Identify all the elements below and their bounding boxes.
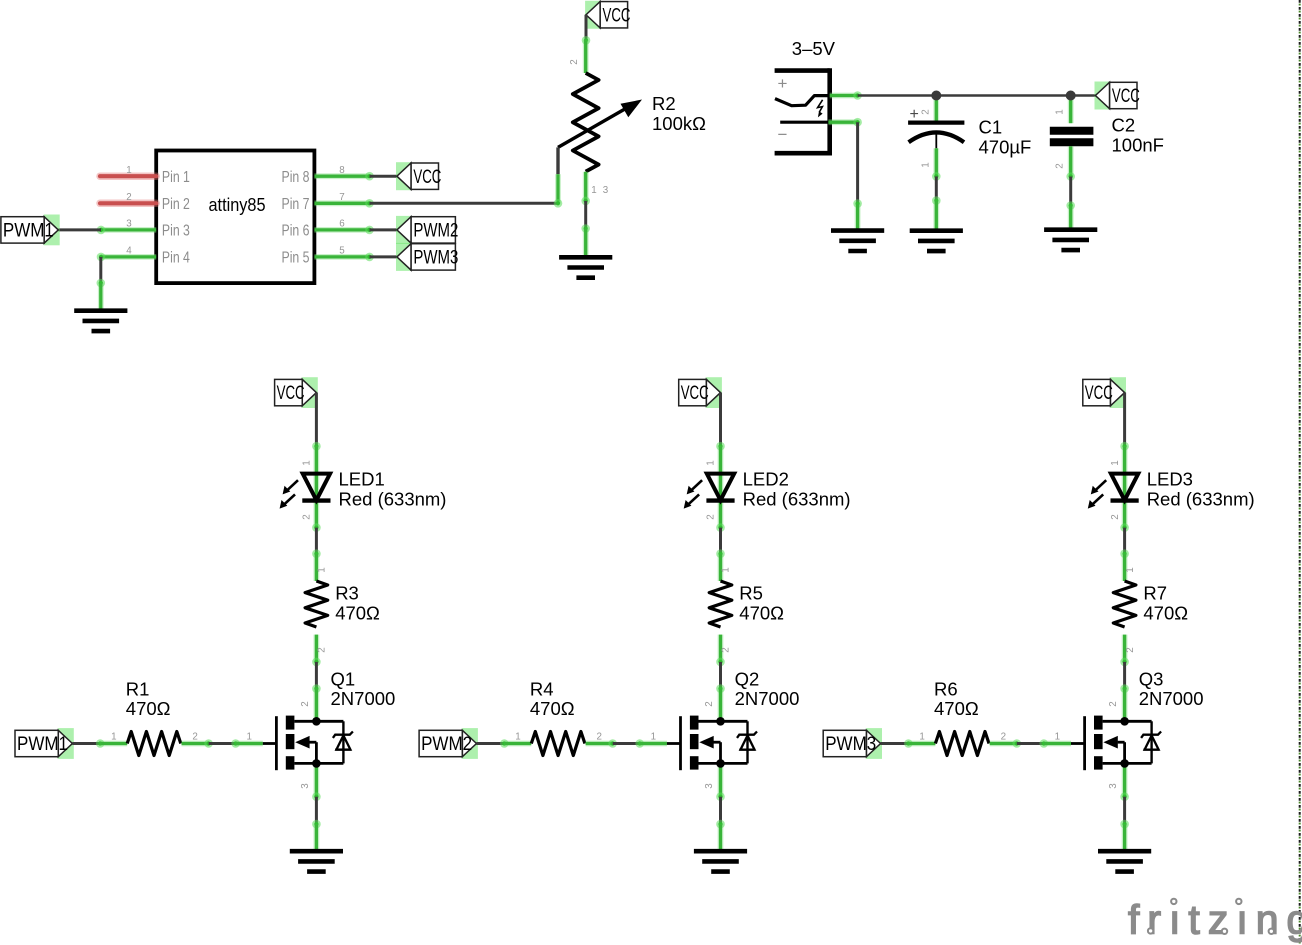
svg-text:1: 1: [1125, 567, 1136, 572]
ground symbol (jack): [831, 231, 884, 251]
svg-text:Pin 2: Pin 2: [162, 196, 190, 213]
ground symbol (C2): [1044, 230, 1097, 250]
wire gate leg to gate bar: [667, 742, 681, 745]
wire resistor to MOSFET drain: [312, 662, 321, 693]
svg-text:1: 1: [515, 731, 520, 742]
label C2 100nF: [1112, 115, 1164, 156]
pin 6 number label: [339, 219, 345, 230]
pin 2 red unrouted wire: [100, 200, 156, 208]
svg-text:R1: R1: [126, 679, 150, 700]
wire pin7 to potentiometer wiper: [370, 202, 559, 205]
svg-text:1: 1: [706, 460, 717, 465]
net flag VCC (pot): [585, 1, 630, 29]
C1 lower stem: [935, 133, 937, 148]
svg-text:470µF: 470µF: [979, 137, 1032, 158]
svg-text:R3: R3: [335, 583, 359, 604]
resistor R5 pin2 green leg: [716, 635, 725, 667]
resistor R3 pin1 green leg: [313, 554, 319, 581]
ground pin leg (pot): [583, 229, 589, 258]
wire C1 to ground: [932, 176, 941, 205]
potentiometer R2 wiper arrow: [558, 100, 642, 148]
svg-text:470Ω: 470Ω: [530, 698, 575, 719]
power jack minus pin line: [780, 121, 828, 124]
wire VCC flag down to pot pin 2: [582, 15, 591, 45]
svg-text:LED2: LED2: [743, 469, 789, 490]
svg-text:3: 3: [603, 185, 609, 196]
svg-text:Q2: Q2: [735, 669, 760, 690]
LED LED2 symbol: [684, 474, 735, 509]
svg-text:2: 2: [704, 701, 715, 706]
junction node at C1: [931, 91, 941, 101]
ground pin leg (Q2): [718, 824, 724, 851]
svg-text:R6: R6: [934, 679, 958, 700]
pin name label Pin 5 (right): [282, 250, 310, 267]
LED2 pin 2 number label: [706, 514, 725, 532]
resistor R6 body: [935, 732, 989, 756]
MOSFET Q3 source green leg: [1120, 763, 1129, 801]
LED1 pin 2 number label: [302, 514, 321, 532]
Q3 source pin 3 number label: [1108, 783, 1119, 789]
pin 5 number label: [339, 246, 345, 257]
resistor R6 pin2 green leg: [990, 739, 1021, 748]
svg-text:−: −: [778, 125, 788, 144]
wire resistor to MOSFET drain: [1120, 662, 1129, 693]
svg-text:470Ω: 470Ω: [934, 698, 979, 719]
net flag VCC (LED3 branch): [1083, 377, 1126, 408]
svg-text:Pin 5: Pin 5: [282, 250, 310, 267]
svg-text:Q3: Q3: [1139, 669, 1164, 690]
LED LED3 pin1 green leg: [1122, 446, 1128, 527]
net flag VCC (chip): [396, 162, 441, 190]
resistor R6 pin1 green leg: [908, 741, 935, 747]
svg-text:470Ω: 470Ω: [1143, 602, 1188, 623]
svg-text:3: 3: [126, 219, 132, 230]
svg-text:LED1: LED1: [339, 469, 385, 490]
svg-text:PWM2: PWM2: [421, 734, 472, 755]
resistor R1 body: [127, 732, 181, 756]
svg-text:Red (633nm): Red (633nm): [743, 488, 851, 509]
capacitor C2 pin 1 green leg: [1068, 96, 1074, 124]
svg-text:1: 1: [126, 165, 131, 176]
svg-text:2: 2: [706, 514, 717, 519]
potentiometer R2 zigzag body: [573, 73, 599, 172]
capacitor C1 curved plate: [909, 132, 964, 142]
wire pin4 down to ground: [97, 257, 106, 287]
pot pin 2 green leg: [583, 40, 589, 73]
C2 pin 2 number label: [1055, 163, 1066, 168]
label C1 470uF: [979, 117, 1032, 158]
svg-text:VCC: VCC: [277, 383, 305, 404]
page boundary dashed line (right edge): [1299, 0, 1301, 945]
svg-text:100kΩ: 100kΩ: [652, 113, 706, 134]
label LED3 Red (633nm): [1147, 469, 1255, 510]
svg-text:PWM1: PWM1: [3, 221, 54, 242]
svg-text:3: 3: [300, 783, 311, 789]
R6 pin 2 number label: [1001, 731, 1006, 742]
net flag PWM1 (chip): [1, 215, 60, 246]
ground symbol (Q1): [290, 851, 343, 871]
LED LED2 pin1 green leg: [718, 446, 724, 527]
pin name label Pin 7 (right): [282, 196, 310, 213]
capacitor C2 plates: [1050, 131, 1094, 143]
svg-text:PWM3: PWM3: [413, 248, 458, 269]
svg-text:1: 1: [721, 567, 732, 572]
resistor R4 pin2 green leg: [586, 739, 617, 748]
svg-text:R7: R7: [1143, 583, 1167, 604]
C1 pin 1 number label: [921, 162, 932, 167]
label R6 470ohm: [934, 679, 979, 720]
R1 pin 1 number label: [111, 731, 116, 742]
svg-text:2: 2: [1108, 701, 1119, 706]
power jack J1 outline: [775, 68, 830, 155]
label Q1 2N7000: [331, 669, 396, 710]
R4 pin 1 number label: [515, 731, 520, 742]
net flag PWM3 (chip): [396, 243, 458, 271]
label 3-5V: [792, 38, 836, 59]
Q3 drain pin 2 number label: [1108, 701, 1119, 706]
svg-text:1: 1: [651, 731, 656, 742]
LED3 pin 2 number label: [1110, 514, 1129, 532]
label R1 470ohm: [126, 679, 171, 720]
svg-text:1: 1: [591, 185, 596, 196]
MOSFET Q2 source green leg: [716, 763, 725, 801]
wire R1 to gate: [209, 739, 240, 748]
svg-text:Pin 8: Pin 8: [282, 169, 310, 186]
transistor Q1 2N7000 symbol: [276, 716, 353, 771]
wire LED cathode to resistor: [1120, 528, 1129, 558]
VCC power rail wire: [858, 94, 1096, 97]
svg-text:C2: C2: [1112, 115, 1136, 136]
label R3 470ohm: [335, 583, 380, 624]
svg-text:2: 2: [596, 731, 601, 742]
svg-text:R5: R5: [739, 583, 763, 604]
svg-text:1: 1: [919, 731, 924, 742]
R1 pin 2 number label: [192, 731, 197, 742]
resistor R1 pin1 green leg: [100, 741, 127, 747]
wire R4 to gate: [613, 739, 644, 748]
MOSFET Q2 drain green leg: [718, 689, 724, 722]
wire source to ground: [1120, 797, 1129, 829]
svg-text:7: 7: [339, 192, 344, 203]
svg-text:LED3: LED3: [1147, 469, 1193, 490]
svg-text:1: 1: [1110, 460, 1121, 465]
pot pin 2 number label: [569, 59, 580, 64]
wire PWM1 flag to pin3: [58, 228, 101, 231]
svg-text:Red (633nm): Red (633nm): [339, 488, 447, 509]
resistor R5 body: [709, 581, 732, 627]
power jack minus label: [778, 125, 788, 144]
R6 pin 1 number label: [919, 731, 924, 742]
net flag PWM3: [823, 728, 882, 759]
svg-text:2N7000: 2N7000: [735, 688, 800, 709]
wire VCC to LED anode: [1120, 393, 1129, 451]
wire source to ground: [312, 797, 321, 829]
svg-text:2: 2: [1110, 514, 1121, 519]
svg-text:1: 1: [317, 567, 328, 572]
power jack lightning mark: [818, 100, 823, 118]
MOSFET Q1 drain green leg: [313, 689, 319, 722]
MOSFET Q1 source green leg: [312, 763, 321, 801]
wire LED cathode to resistor: [716, 528, 725, 558]
LED LED3 symbol: [1088, 474, 1139, 509]
svg-text:470Ω: 470Ω: [739, 602, 784, 623]
ground pin leg (C1): [933, 201, 939, 231]
svg-text:Pin 1: Pin 1: [162, 169, 190, 186]
label R2 100k: [652, 93, 706, 134]
ground pin leg (Q1): [313, 824, 319, 851]
ground pin leg (jack): [855, 204, 861, 231]
pin name label Pin 8 (right): [282, 169, 310, 186]
pot pin 1 3 number labels: [591, 185, 609, 196]
pin name label Pin 3 (left): [162, 223, 190, 240]
wire PWM1 to R1: [72, 739, 104, 748]
svg-text:Pin 6: Pin 6: [282, 223, 310, 240]
ground symbol (Q3): [1098, 851, 1151, 871]
svg-text:5: 5: [339, 246, 345, 257]
pin name label Pin 4 (left): [162, 250, 190, 267]
ground symbol (Q2): [694, 851, 747, 871]
ground pin leg (chip): [98, 283, 104, 311]
fritzing watermark logo: [1128, 897, 1302, 943]
svg-text:PWM3: PWM3: [825, 734, 876, 755]
Q1 gate pin 1 number label: [246, 731, 251, 742]
net flag VCC (power rail): [1095, 82, 1140, 110]
pin 7 number label: [339, 192, 344, 203]
svg-text:8: 8: [339, 165, 345, 176]
R3 pin 2 number label: [317, 647, 328, 652]
svg-text:2N7000: 2N7000: [1139, 688, 1204, 709]
svg-text:2: 2: [317, 647, 328, 652]
svg-text:2: 2: [126, 192, 131, 203]
pin 3 green leg: [97, 226, 157, 235]
svg-text:6: 6: [339, 219, 345, 230]
pin 6 green leg (right): [314, 226, 373, 235]
svg-text:3: 3: [704, 783, 715, 789]
svg-text:2: 2: [569, 59, 580, 64]
wire VCC to LED anode: [716, 393, 725, 451]
transistor Q3 2N7000 symbol: [1085, 716, 1162, 771]
resistor R4 pin1 green leg: [504, 741, 531, 747]
pin name label Pin 6 (right): [282, 223, 310, 240]
Q1 drain pin 2 number label: [300, 701, 311, 706]
svg-text:VCC: VCC: [603, 5, 631, 26]
svg-text:1: 1: [1055, 731, 1060, 742]
label Q2 2N7000: [735, 669, 800, 710]
wire R6 to gate: [1017, 739, 1048, 748]
svg-text:Red (633nm): Red (633nm): [1147, 488, 1255, 509]
net flag PWM2 (chip): [396, 216, 458, 244]
svg-text:Q1: Q1: [331, 669, 356, 690]
wire pin8 to VCC flag: [370, 175, 397, 178]
label LED2 Red (633nm): [743, 469, 851, 510]
pot bottom green leg: [581, 172, 590, 205]
resistor R4 body: [531, 732, 585, 756]
svg-text:3: 3: [1108, 783, 1119, 789]
IC U1 attiny85 body: [156, 151, 314, 284]
svg-text:Pin 3: Pin 3: [162, 223, 190, 240]
pin 8 green leg (right): [314, 172, 373, 181]
svg-text:2: 2: [1055, 163, 1066, 168]
svg-text:Pin 4: Pin 4: [162, 250, 190, 267]
MOSFET Q1 gate green leg: [236, 741, 263, 747]
power jack minus pin green leg: [828, 118, 861, 127]
svg-text:2: 2: [300, 701, 311, 706]
pin 1 number label: [126, 165, 131, 176]
svg-text:2: 2: [192, 731, 197, 742]
capacitor C1 top plate: [908, 120, 964, 124]
label R5 470ohm: [739, 583, 784, 624]
resistor R3 body: [305, 581, 328, 627]
pin 4 number label: [126, 246, 132, 257]
svg-text:Pin 7: Pin 7: [282, 196, 310, 213]
wire pin6 to PWM2 flag: [370, 228, 397, 231]
resistor R7 pin1 green leg: [1122, 554, 1128, 581]
pin name label Pin 2 (left): [162, 196, 190, 213]
svg-text:1: 1: [111, 731, 116, 742]
pin 7 green leg (right): [314, 199, 373, 208]
wire VCC to LED anode: [312, 393, 321, 451]
svg-text:2: 2: [302, 514, 313, 519]
MOSFET Q3 gate green leg: [1044, 741, 1071, 747]
label Q3 2N7000: [1139, 669, 1204, 710]
ground symbol (pot): [559, 257, 612, 277]
svg-text:470Ω: 470Ω: [126, 698, 171, 719]
ground symbol (chip): [74, 311, 127, 331]
svg-text:1: 1: [921, 162, 932, 167]
pot wiper wire down: [556, 147, 559, 174]
capacitor C1 pin 2 green leg: [933, 96, 939, 124]
svg-text:PWM2: PWM2: [413, 221, 458, 242]
MOSFET Q2 gate green leg: [640, 741, 667, 747]
R5 pin 2 number label: [721, 647, 732, 652]
net flag PWM1: [15, 728, 74, 759]
R3 pin 1 number label: [317, 567, 328, 572]
net flag PWM2: [419, 728, 478, 759]
R7 pin 2 number label: [1125, 647, 1136, 652]
svg-text:frıtzıng: frıtzıng: [1128, 897, 1302, 943]
wire LED cathode to resistor: [312, 528, 321, 558]
svg-text:2: 2: [1001, 731, 1006, 742]
ground pin leg (Q3): [1122, 824, 1128, 851]
net flag VCC (LED2 branch): [679, 377, 722, 408]
svg-text:2: 2: [721, 647, 732, 652]
R5 pin 1 number label: [721, 567, 732, 572]
transistor Q2 2N7000 symbol: [681, 716, 758, 771]
resistor R5 pin1 green leg: [718, 554, 724, 581]
LED LED1 pin1 green leg: [313, 446, 319, 527]
label R4 470ohm: [530, 679, 575, 720]
LED1 pin 1 number label: [302, 460, 313, 465]
svg-text:2N7000: 2N7000: [331, 688, 396, 709]
Q2 drain pin 2 number label: [704, 701, 715, 706]
net flag VCC (LED1 branch): [275, 377, 318, 408]
LED3 pin 1 number label: [1110, 460, 1121, 465]
capacitor C1 pin 1 green leg: [932, 148, 941, 180]
wire PWM2 to R4: [477, 739, 509, 748]
svg-text:VCC: VCC: [413, 167, 441, 188]
pin 5 green leg (right): [314, 253, 373, 262]
wire source to ground: [716, 797, 725, 829]
pin name label Pin 1 (left): [162, 169, 190, 186]
svg-text:VCC: VCC: [1085, 383, 1113, 404]
label LED1 Red (633nm): [339, 469, 447, 510]
resistor R7 pin2 green leg: [1120, 635, 1129, 667]
svg-text:R4: R4: [530, 679, 554, 700]
pin 3 number label: [126, 219, 132, 230]
svg-text:2: 2: [1125, 647, 1136, 652]
svg-text:VCC: VCC: [681, 383, 709, 404]
svg-text:1: 1: [246, 731, 251, 742]
wire PWM3 to R6: [881, 739, 913, 748]
wire gate leg to gate bar: [1071, 742, 1085, 745]
wire minus pin down to ground: [853, 122, 862, 208]
svg-text:1: 1: [1055, 109, 1066, 114]
power jack plus pin green leg: [830, 91, 862, 100]
svg-text:470Ω: 470Ω: [335, 602, 380, 623]
LED LED1 symbol: [280, 474, 331, 509]
power jack switch lever: [775, 96, 830, 106]
svg-text:4: 4: [126, 246, 132, 257]
C2 pin 1 number label: [1055, 109, 1066, 114]
svg-text:VCC: VCC: [1112, 86, 1140, 107]
svg-text:C1: C1: [979, 117, 1003, 138]
pot wiper green leg: [554, 174, 563, 207]
C1 pin 2 number label: [921, 109, 932, 114]
resistor R3 pin2 green leg: [312, 635, 321, 667]
LED2 pin 1 number label: [706, 460, 717, 465]
junction node at C2: [1066, 91, 1076, 101]
Q2 gate pin 1 number label: [651, 731, 656, 742]
wire pin5 to PWM3 flag: [370, 255, 397, 258]
svg-text:3–5V: 3–5V: [792, 38, 836, 59]
pin 4 green leg: [97, 253, 157, 262]
resistor R1 pin2 green leg: [182, 739, 213, 748]
svg-text:PWM1: PWM1: [17, 734, 68, 755]
capacitor C2 pin 2 green leg: [1066, 146, 1075, 181]
wire resistor to MOSFET drain: [716, 662, 725, 693]
pin 2 number label: [126, 192, 131, 203]
Q3 gate pin 1 number label: [1055, 731, 1060, 742]
svg-text:attiny85: attiny85: [209, 194, 266, 215]
Q1 source pin 3 number label: [300, 783, 311, 789]
Q2 source pin 3 number label: [704, 783, 715, 789]
pin 1 red unrouted wire: [100, 172, 156, 180]
svg-text:R2: R2: [652, 93, 676, 114]
C1 polarity plus sign: [910, 106, 919, 123]
wire gate leg to gate bar: [263, 742, 277, 745]
svg-text:2: 2: [921, 109, 932, 114]
label R7 470ohm: [1143, 583, 1188, 624]
wire pot bottom to ground: [581, 201, 590, 233]
ground pin leg (C2): [1068, 206, 1074, 230]
MOSFET Q3 drain green leg: [1122, 689, 1128, 722]
svg-text:100nF: 100nF: [1112, 135, 1164, 156]
R4 pin 2 number label: [596, 731, 601, 742]
svg-text:+: +: [778, 74, 788, 93]
ground symbol (C1): [910, 231, 963, 251]
R7 pin 1 number label: [1125, 567, 1136, 572]
resistor R7 body: [1113, 581, 1136, 627]
svg-text:1: 1: [302, 460, 313, 465]
power jack plus label: [778, 74, 788, 93]
wire C2 to ground: [1066, 177, 1075, 210]
pin 8 number label: [339, 165, 345, 176]
